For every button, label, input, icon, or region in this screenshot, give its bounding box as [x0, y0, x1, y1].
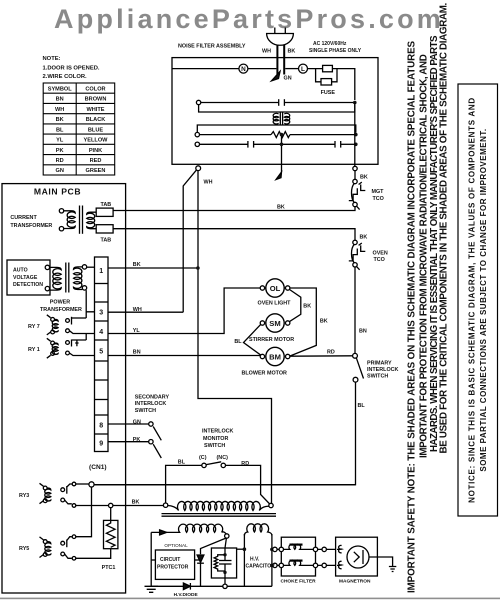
magnetron tube	[337, 545, 369, 568]
svg-text:BK: BK	[277, 205, 285, 211]
choke filter box	[281, 537, 315, 576]
svg-text:INTERLOCK: INTERLOCK	[202, 429, 234, 435]
wire color table	[43, 83, 115, 175]
svg-text:SWITCH: SWITCH	[204, 443, 225, 449]
auto voltage detection box	[7, 260, 50, 295]
svg-text:BE USED FOR THE CRITICAL COMPO: BE USED FOR THE CRITICAL COMPONENTS IN T…	[438, 2, 449, 453]
HV transformer filament winding	[244, 524, 272, 536]
wire RY3 top to node	[76, 483, 89, 485]
svg-text:TCO: TCO	[373, 196, 384, 202]
terminal circle RY3 top out	[72, 482, 76, 486]
wire WH diagonal	[183, 170, 196, 312]
svg-text:MGT: MGT	[372, 189, 385, 195]
wire RY5 bottom to PTC1	[76, 549, 111, 559]
note text	[43, 56, 100, 80]
terminal circle line1 left	[196, 100, 200, 104]
wire pin4 YL	[108, 288, 262, 334]
svg-text:NOTE:: NOTE:	[43, 56, 61, 62]
svg-text:OPTIONAL: OPTIONAL	[164, 543, 188, 548]
svg-text:BL: BL	[178, 460, 186, 466]
svg-text:BROWN: BROWN	[85, 97, 107, 103]
live terminal L	[299, 64, 308, 73]
svg-text:WHITE: WHITE	[86, 107, 104, 113]
wire pin9 PK	[108, 441, 149, 443]
svg-text:NOTICE: SINCE THIS IS BASIC SC: NOTICE: SINCE THIS IS BASIC SCHEMATIC DI…	[468, 97, 477, 503]
wire right vertical inside box	[354, 103, 356, 167]
bottom HV rail	[151, 585, 272, 587]
OVEN TCO thermal cutout	[349, 240, 366, 270]
svg-text:CIRCUIT: CIRCUIT	[160, 557, 180, 563]
relay RY7	[47, 315, 95, 335]
junction dot center line5	[280, 143, 284, 147]
svg-text:YL: YL	[133, 328, 141, 334]
svg-text:DETECTION: DETECTION	[13, 282, 43, 288]
svg-text:IMPORTANT FOR PROTECTION FROM: IMPORTANT FOR PROTECTION FROM MICROWAVE …	[418, 54, 429, 458]
svg-text:FUSE: FUSE	[321, 90, 336, 96]
svg-text:RD: RD	[56, 158, 64, 164]
wire TAB2 to OVEN TCO	[113, 229, 355, 241]
svg-text:RED: RED	[90, 158, 102, 164]
svg-text:H.V.: H.V.	[250, 557, 260, 563]
svg-text:SWITCH: SWITCH	[135, 408, 156, 414]
terminal circle line4 left	[195, 132, 199, 136]
wire pin5 BN	[108, 355, 260, 357]
HV capacitor internals	[214, 538, 231, 584]
wire T1 top to pin1	[87, 266, 95, 268]
choke input circle top	[273, 547, 277, 551]
connector CN1 strip	[95, 257, 109, 452]
svg-text:PTC1: PTC1	[102, 565, 116, 571]
svg-text:PK: PK	[56, 148, 64, 154]
wire CP left stub	[151, 559, 155, 561]
neutral terminal N	[239, 64, 248, 73]
svg-text:RY5: RY5	[19, 546, 29, 552]
svg-text:BK: BK	[132, 499, 140, 505]
relay RY3	[40, 483, 72, 504]
blower motor BM	[260, 347, 290, 365]
wire T1 bottom to pin3 node	[86, 290, 94, 318]
svg-text:TCO: TCO	[374, 257, 385, 263]
node circle main	[89, 482, 94, 487]
svg-text:BL: BL	[234, 339, 242, 345]
svg-text:PROTECTOR: PROTECTOR	[157, 565, 189, 571]
TAB terminal 2	[96, 225, 113, 233]
MAIN PCB box	[2, 184, 126, 593]
wire pin8 GN	[108, 423, 149, 425]
svg-text:RY3: RY3	[19, 493, 29, 499]
svg-text:YL: YL	[56, 138, 64, 144]
main line RY3 to interlock	[92, 484, 356, 486]
magnetron input circle bottom	[322, 563, 326, 567]
wire pin1 BK	[108, 267, 198, 269]
svg-text:BL: BL	[56, 127, 64, 133]
fuse element top	[323, 65, 333, 71]
svg-text:BLOWER MOTOR: BLOWER MOTOR	[242, 371, 288, 377]
ground G1	[145, 586, 159, 592]
terminal circle WH output	[196, 166, 201, 171]
choke coils	[279, 544, 318, 568]
wire to choke bottom	[271, 564, 274, 566]
wire interlock to main line	[92, 382, 356, 485]
terminal circle RY5 bottom out	[72, 557, 76, 561]
wire BM to primary interlock RD	[290, 355, 353, 357]
svg-text:AC 120V/60Hz: AC 120V/60Hz	[313, 41, 347, 47]
wire RY3 bottom BK line	[76, 505, 164, 507]
wire filament left lead down	[243, 534, 245, 586]
HV transformer core	[162, 514, 277, 517]
fuse element bottom	[321, 79, 332, 85]
svg-text:WH: WH	[55, 107, 64, 113]
svg-text:MAGNETRON: MAGNETRON	[339, 579, 371, 585]
circuit protector box	[155, 550, 194, 579]
svg-text:OL: OL	[270, 284, 281, 293]
AVD terminal bottom	[45, 286, 49, 290]
wire OL to SM curve BK	[290, 290, 301, 322]
svg-text:4: 4	[99, 329, 103, 336]
choke input circle bottom	[273, 563, 277, 567]
oven light OL	[260, 279, 290, 297]
svg-text:BK: BK	[56, 117, 64, 123]
wire OVEN TCO to primary interlock	[354, 267, 356, 354]
svg-text:TAB: TAB	[101, 238, 112, 244]
wire RY5 top to main node	[76, 487, 92, 537]
wire SM to BM via BL	[244, 324, 261, 355]
PTC tap circle	[109, 503, 113, 507]
svg-text:BLUE: BLUE	[88, 127, 103, 133]
secondary interlock blade 2	[153, 444, 161, 458]
svg-text:N: N	[241, 66, 246, 73]
svg-text:OVEN LIGHT: OVEN LIGHT	[258, 301, 292, 307]
power plug P1	[267, 28, 294, 75]
svg-text:BK: BK	[360, 175, 368, 181]
svg-text:PRIMARY: PRIMARY	[367, 361, 392, 367]
junction dot BK pin1	[196, 266, 200, 270]
secondary interlock switch PK contact	[149, 440, 153, 444]
svg-text:1.DOOR IS OPENED.: 1.DOOR IS OPENED.	[43, 66, 100, 72]
svg-text:1: 1	[99, 268, 103, 275]
svg-text:(NC): (NC)	[217, 455, 229, 461]
svg-text:H.V.DIODE: H.V.DIODE	[174, 592, 199, 598]
HV transformer primary right terminal	[269, 503, 273, 507]
HV capacitor box	[211, 548, 236, 578]
svg-text:SOME PARTIAL CONNECTIONS ARE S: SOME PARTIAL CONNECTIONS ARE SUBJECT TO …	[479, 128, 488, 471]
svg-text:BK: BK	[133, 262, 141, 268]
svg-text:PK: PK	[133, 437, 141, 443]
svg-text:VOLTAGE: VOLTAGE	[13, 275, 38, 281]
power transformer T1	[50, 263, 87, 293]
svg-text:SM: SM	[269, 319, 280, 328]
svg-text:SINGLE PHASE ONLY: SINGLE PHASE ONLY	[309, 48, 362, 54]
center ground wire with arrow	[276, 135, 282, 180]
terminal circle RY5 top out	[72, 535, 76, 539]
wire filament right lead down	[271, 534, 273, 586]
svg-text:BLACK: BLACK	[86, 117, 106, 123]
svg-text:COLOR: COLOR	[85, 87, 105, 93]
svg-text:GN: GN	[56, 168, 64, 174]
primary interlock switch S1	[353, 353, 364, 382]
wires into choke box	[277, 549, 279, 565]
noise filter line 1 with capacitor C1	[201, 99, 355, 106]
svg-text:L: L	[301, 66, 305, 73]
svg-text:TRANSFORMER: TRANSFORMER	[40, 307, 82, 313]
terminal circle line5 left	[195, 142, 199, 146]
svg-text:5: 5	[99, 348, 103, 355]
svg-text:SYMBOL: SYMBOL	[48, 87, 73, 93]
wire to choke top	[271, 548, 274, 550]
svg-text:WH: WH	[204, 180, 213, 186]
junction dot filament right to choke top	[270, 548, 274, 552]
svg-text:POWER: POWER	[50, 300, 70, 306]
HV transformer primary left terminal	[163, 503, 167, 507]
noise filter line 2 loop	[199, 104, 355, 112]
wire MGT TCO to TAB1	[113, 207, 355, 211]
secondary interlock switch GN contact	[149, 422, 153, 426]
svg-text:CHOKE FILTER: CHOKE FILTER	[281, 579, 317, 585]
svg-text:BM: BM	[269, 352, 281, 361]
arrow on secondary wire	[160, 530, 167, 535]
svg-text:RD: RD	[327, 350, 335, 356]
component value labels in circles	[34, 66, 305, 361]
svg-text:WH: WH	[262, 49, 271, 55]
MGT TCO thermal cutout	[349, 166, 366, 209]
PTC1 thermistor	[104, 508, 118, 549]
noise filter line 3	[197, 125, 355, 133]
svg-text:TAB: TAB	[101, 202, 112, 208]
svg-text:IMPORTANT SAFETY NOTE: THE SHA: IMPORTANT SAFETY NOTE: THE SHADED AREAS …	[407, 40, 418, 593]
svg-text:INTERLOCK: INTERLOCK	[135, 401, 167, 407]
svg-text:BK: BK	[303, 304, 311, 310]
svg-text:RD: RD	[241, 461, 249, 467]
junction dot center line4	[280, 133, 284, 137]
svg-text:INTERLOCK: INTERLOCK	[367, 367, 399, 373]
stirrer motor SM	[260, 314, 290, 332]
svg-text:STIRRER MOTOR: STIRRER MOTOR	[249, 337, 294, 343]
junction dot filament right to choke bottom	[270, 564, 274, 568]
svg-text:YELLOW: YELLOW	[84, 138, 109, 144]
noise filter line 4 with resistor R0	[200, 132, 356, 138]
choke transformer T0 windings	[273, 112, 290, 126]
ground G2	[389, 567, 396, 572]
ground GN at plug	[272, 72, 281, 81]
svg-text:AUTO: AUTO	[13, 268, 28, 274]
schematic labels	[10, 41, 398, 598]
junction dot cap-filament	[243, 547, 247, 551]
magnetron box	[336, 537, 378, 576]
AVD terminal top	[45, 265, 49, 269]
relay RY1	[47, 334, 95, 359]
svg-text:3: 3	[99, 310, 103, 317]
TAB terminal 1	[96, 208, 113, 216]
svg-text:BN: BN	[359, 329, 367, 335]
svg-text:GREEN: GREEN	[86, 168, 106, 174]
wire BK vertical from WH node	[198, 171, 272, 504]
svg-text:GN: GN	[133, 419, 141, 425]
svg-text:PINK: PINK	[89, 148, 102, 154]
svg-text:(CN1): (CN1)	[89, 464, 107, 471]
svg-text:RY 7: RY 7	[28, 324, 40, 330]
svg-text:2.WIRE COLOR.: 2.WIRE COLOR.	[43, 74, 88, 80]
wire secondary to ground left	[150, 532, 152, 586]
svg-text:(C): (C)	[199, 455, 207, 461]
svg-text:BK: BK	[320, 319, 328, 325]
magnetron input circle top	[322, 547, 326, 551]
svg-text:BN: BN	[56, 97, 64, 103]
noise filter line 5 with capacitors C2 C3	[200, 141, 356, 148]
interlock monitor switch	[166, 462, 270, 505]
svg-text:9: 9	[99, 441, 103, 448]
svg-text:RY 1: RY 1	[28, 347, 40, 353]
HV diode symbol on rail	[183, 583, 190, 590]
HV transformer secondary winding	[151, 524, 227, 534]
wire pin3 WH	[108, 311, 183, 313]
svg-text:BK: BK	[288, 49, 296, 55]
svg-text:MONITOR: MONITOR	[203, 436, 228, 442]
junction dot line1 right	[353, 101, 357, 105]
svg-text:MAIN PCB: MAIN PCB	[34, 187, 81, 197]
HV secondary output terminal	[225, 534, 229, 538]
wire OL right to BM right BK	[290, 288, 316, 356]
wires choke to magnetron	[318, 549, 337, 565]
HV transformer primary winding	[168, 501, 269, 510]
HV rectifier diode (internal)	[197, 538, 226, 586]
fuse loop wiring	[308, 69, 355, 100]
svg-text:CAPACITOR: CAPACITOR	[246, 563, 276, 569]
scan edge artifact at bottom	[0, 598, 500, 600]
junction dot line5 right	[354, 143, 358, 147]
wire CP right stub	[195, 559, 201, 561]
notice box	[458, 84, 498, 516]
wire cap to filament left	[237, 548, 245, 550]
svg-text:SWITCH: SWITCH	[367, 374, 388, 380]
important safety note vertical text	[407, 2, 450, 593]
svg-text:WH: WH	[133, 307, 142, 313]
svg-text:SECONDARY: SECONDARY	[135, 395, 170, 401]
wire top line to N and L	[172, 68, 299, 70]
relay RY5	[40, 537, 72, 559]
svg-text:8: 8	[99, 423, 103, 430]
junction dot line4 right	[354, 133, 358, 137]
notice vertical text	[468, 97, 489, 503]
svg-text:OVEN: OVEN	[373, 251, 388, 257]
noise filter assembly box	[172, 58, 378, 165]
connector pin numbers	[99, 268, 103, 448]
svg-text:CURRENT: CURRENT	[10, 215, 37, 221]
svg-text:BL: BL	[358, 403, 366, 409]
svg-text:BK: BK	[360, 235, 368, 241]
svg-text:BN: BN	[133, 349, 141, 355]
svg-text:TRANSFORMER: TRANSFORMER	[10, 223, 52, 229]
wire magnetron to ground	[369, 557, 393, 567]
svg-text:GN: GN	[284, 76, 292, 82]
secondary interlock blade 1	[153, 427, 161, 441]
terminal circle RY3 bottom out	[72, 504, 76, 508]
HV cap bottom terminal	[223, 584, 227, 588]
svg-text:NOISE FILTER ASSEMBLY: NOISE FILTER ASSEMBLY	[178, 44, 246, 50]
current transformer CT1	[59, 206, 96, 234]
